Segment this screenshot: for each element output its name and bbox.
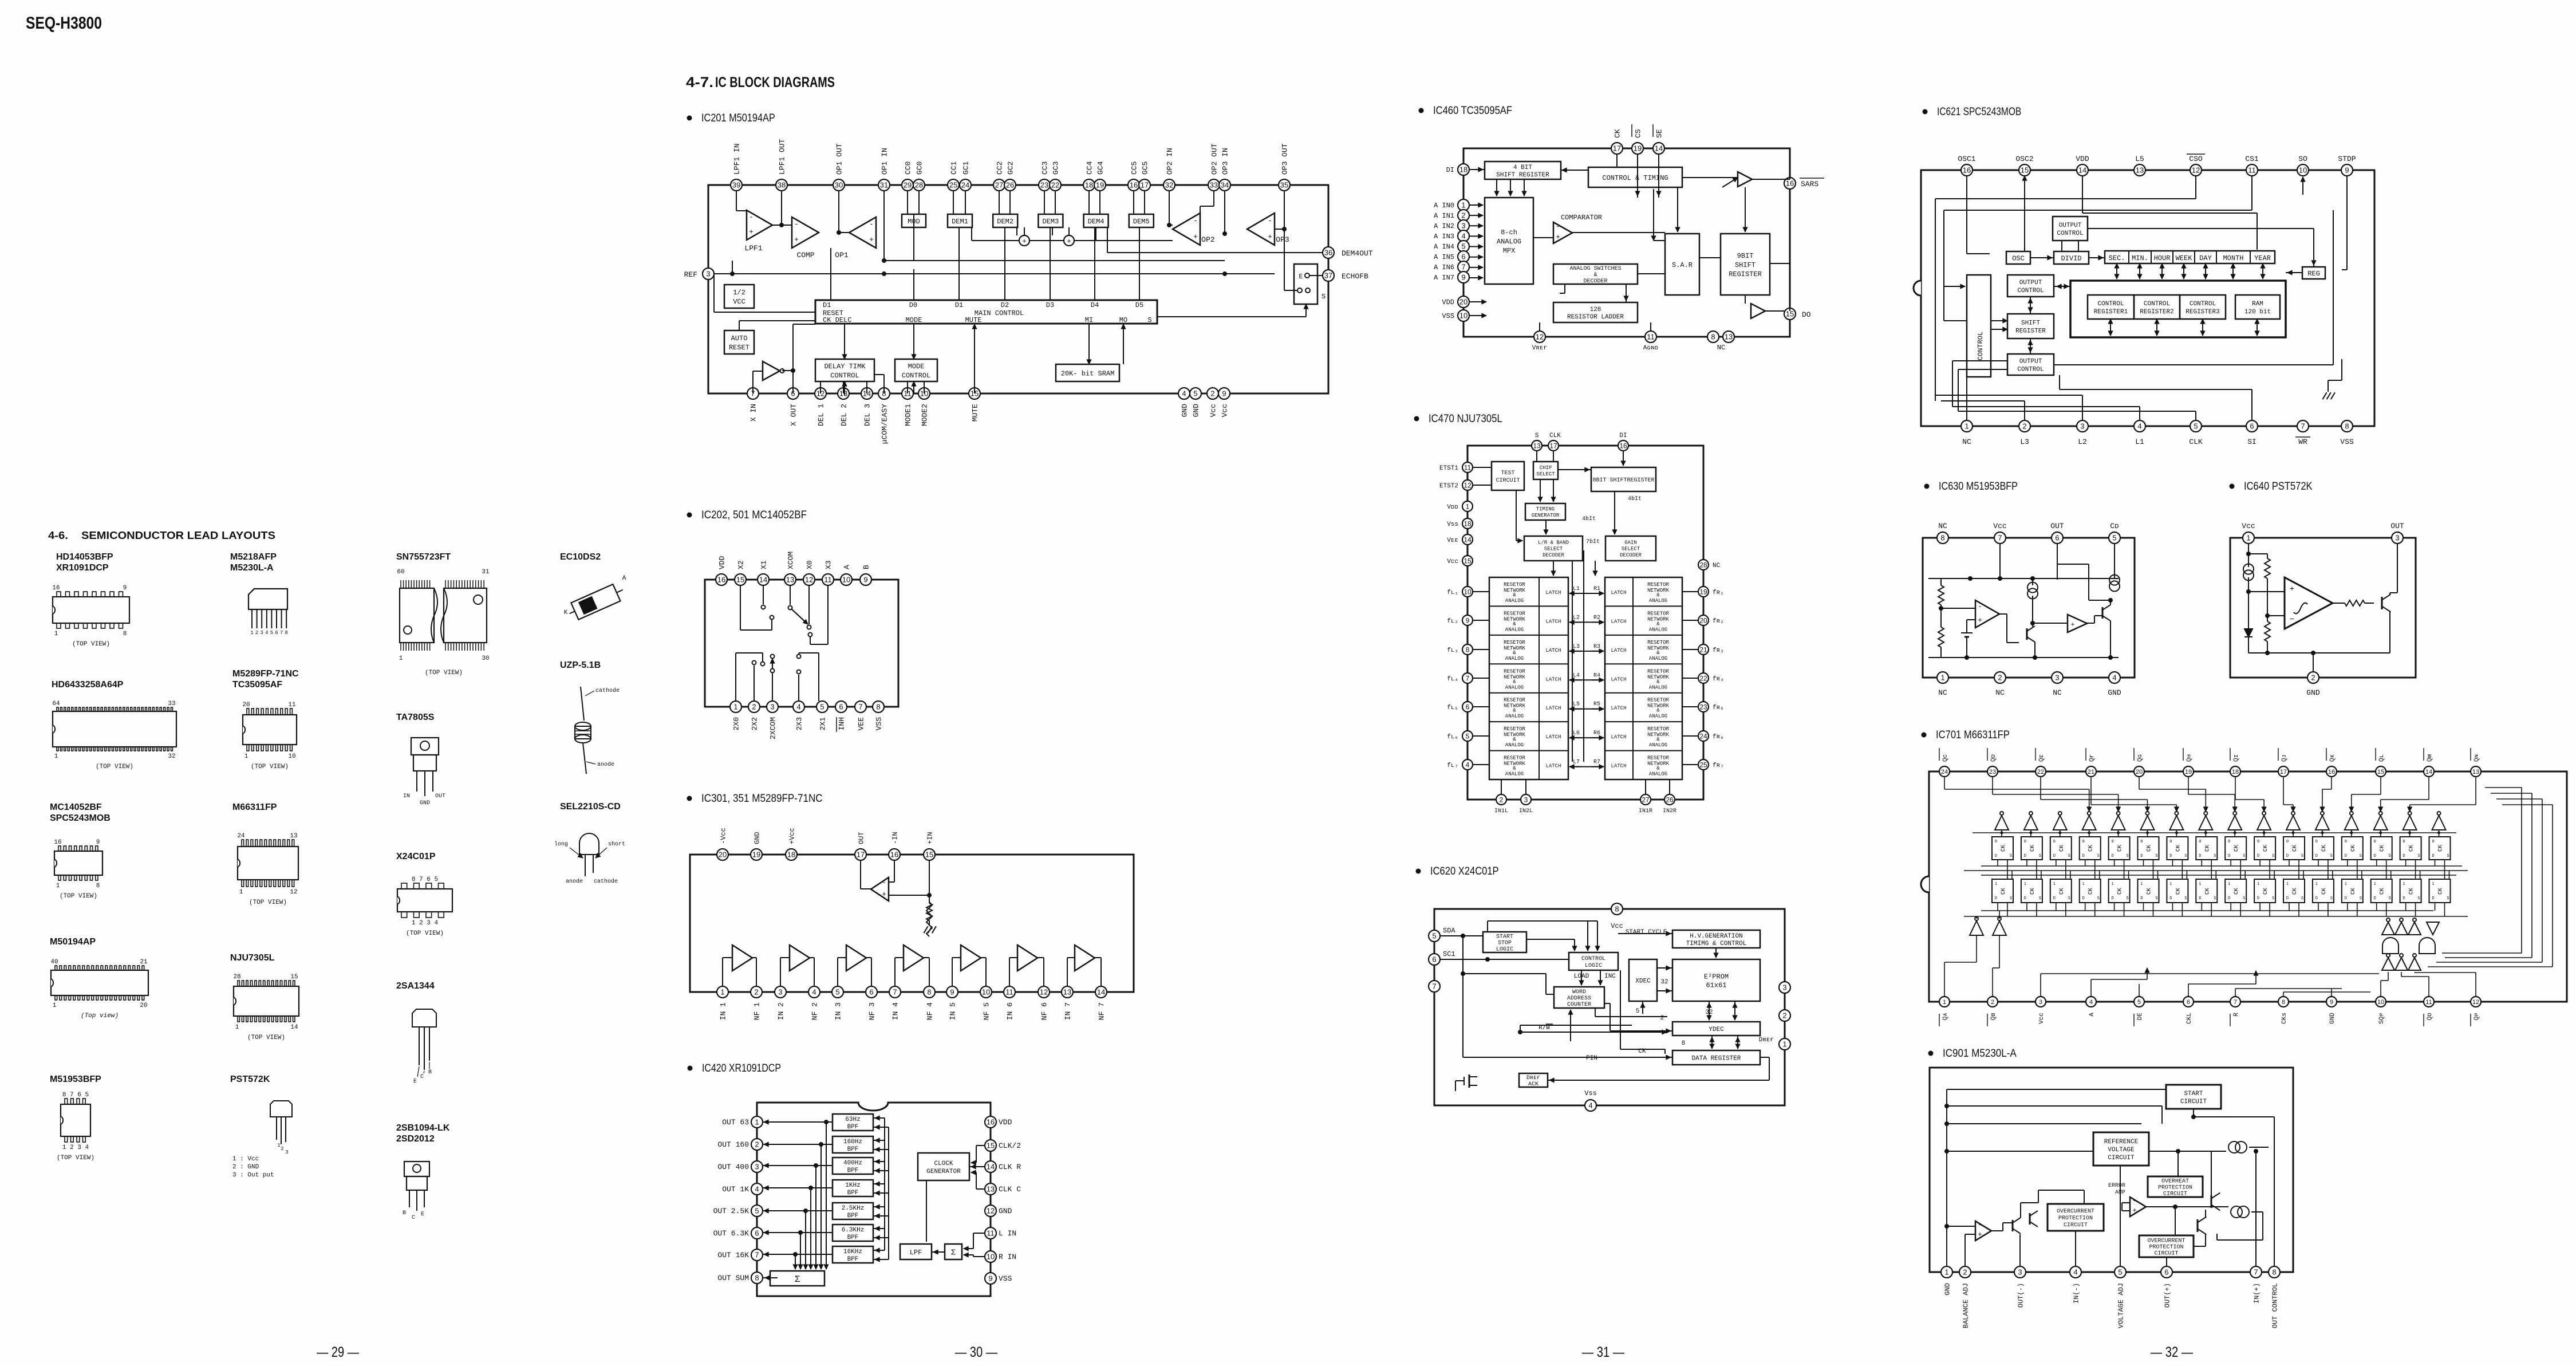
- svg-text:CONTROL: CONTROL: [902, 372, 930, 380]
- svg-text:17: 17: [1613, 144, 1621, 153]
- svg-text:NF 6: NF 6: [1040, 1002, 1049, 1020]
- svg-text:36: 36: [1324, 249, 1332, 257]
- svg-text:13: 13: [987, 1185, 995, 1194]
- svg-text:IN 5: IN 5: [949, 1002, 957, 1020]
- svg-text:CIRCUIT: CIRCUIT: [2108, 1155, 2135, 1162]
- IC701 pin 15 Qʟ: [2376, 766, 2386, 777]
- svg-text:39: 39: [732, 181, 740, 190]
- svg-text:DI: DI: [1619, 432, 1627, 439]
- IC640 resistor 1: [2265, 558, 2270, 578]
- svg-text:6: 6: [275, 630, 278, 636]
- svg-text:CC4: CC4: [1086, 161, 1094, 175]
- IC460 pin 4 A IN3: [1458, 230, 1469, 242]
- svg-text:OUT 2.5K: OUT 2.5K: [713, 1207, 749, 1215]
- svg-text:CK: CK: [2088, 845, 2094, 852]
- svg-text:A IN6: A IN6: [1434, 263, 1454, 271]
- svg-text:4-6.: 4-6.: [48, 530, 68, 541]
- IC201 pin 25 CC1: [948, 179, 959, 191]
- IC901 pin 8 OUT CONTROL: [2269, 1266, 2280, 1278]
- svg-text:1 2 3 4: 1 2 3 4: [62, 1144, 89, 1151]
- svg-text:cathode: cathode: [594, 878, 618, 885]
- IC460 box 4BIT SHIFT REGISTER: [1485, 162, 1561, 179]
- svg-text:D: D: [2286, 854, 2289, 859]
- IC460 pin 2 A IN1: [1458, 210, 1469, 221]
- svg-text:16: 16: [52, 585, 60, 592]
- svg-text:CK: CK: [2321, 845, 2328, 852]
- IC901 current source 1: [2228, 1141, 2240, 1153]
- svg-text:3: 3: [2395, 534, 2399, 542]
- IC621 box RAM 120bit: [2235, 295, 2280, 319]
- svg-text:CK: CK: [2438, 888, 2444, 895]
- svg-text:RESETOR: RESETOR: [1647, 582, 1669, 588]
- IC620 box YDEC: [1672, 1022, 1760, 1036]
- svg-text:CONTROL: CONTROL: [2017, 288, 2044, 294]
- IC701 FF row1 5: [2109, 837, 2130, 860]
- IC470 box GAIN SELECT DECODER: [1605, 536, 1656, 561]
- IC202 pin 16 VDD: [716, 574, 727, 585]
- svg-text:OUTPUT: OUTPUT: [2059, 222, 2082, 229]
- IC201 pin 24 GC1: [960, 179, 971, 191]
- IC420 pin 2 OUT 160: [751, 1139, 763, 1150]
- svg-text:9: 9: [96, 839, 100, 846]
- svg-text:16: 16: [717, 576, 725, 584]
- svg-text:9: 9: [1461, 273, 1465, 282]
- IC630 pin 4 GND: [2109, 672, 2120, 683]
- svg-text:32: 32: [168, 753, 175, 760]
- svg-text:COMPARATOR: COMPARATOR: [1561, 214, 1602, 222]
- svg-text:(TOP VIEW): (TOP VIEW): [60, 893, 97, 900]
- IC201 pin 17 GC5: [1139, 179, 1150, 191]
- svg-text:Vcc: Vcc: [1209, 404, 1218, 417]
- svg-text:CK: CK: [2234, 888, 2240, 895]
- svg-text:16KHz: 16KHz: [843, 1249, 862, 1255]
- svg-text:9: 9: [2330, 999, 2333, 1006]
- package M66311FP SOP24: [238, 847, 298, 880]
- svg-text:20: 20: [242, 702, 250, 708]
- IC701 buses below row2: [1981, 910, 2433, 911]
- IC701 FF row1 1: [1992, 837, 2013, 860]
- svg-text:Vѕѕ: Vѕѕ: [1447, 521, 1458, 528]
- label IC460 TC35095AF: [1419, 108, 1424, 113]
- svg-text:2: 2: [1660, 1015, 1664, 1022]
- svg-text:0: 0: [2082, 840, 2085, 844]
- svg-text:OUTPUT: OUTPUT: [2019, 358, 2042, 365]
- svg-text:16: 16: [987, 1118, 995, 1127]
- svg-text:ANALOG: ANALOG: [1497, 238, 1521, 246]
- svg-text:Aɢɴᴅ: Aɢɴᴅ: [1643, 345, 1658, 352]
- IC640 pin 2 GND: [2307, 672, 2319, 683]
- IC460 pin 18 DI: [1458, 164, 1469, 175]
- IC460 box 9BIT SHIFT REGISTER: [1721, 234, 1770, 295]
- IC420 right side wires: [976, 1145, 985, 1146]
- svg-text:1: 1: [399, 655, 403, 662]
- IC301 pin 9 IN 5: [946, 986, 958, 998]
- svg-text:C: C: [412, 1215, 415, 1221]
- IC701 pin 6 CKL: [2183, 997, 2194, 1007]
- svg-text:4: 4: [2089, 999, 2093, 1006]
- svg-text:CK: CK: [2030, 888, 2036, 895]
- svg-text:X24C01P: X24C01P: [396, 852, 436, 861]
- svg-text:CK: CK: [2059, 845, 2065, 852]
- svg-text:S: S: [2243, 854, 2245, 859]
- IC620 pin 1 Dref: [1779, 1038, 1790, 1050]
- svg-text:fʟ₆: fʟ₆: [1447, 734, 1458, 741]
- svg-text:1: 1: [1461, 201, 1465, 210]
- svg-text:11: 11: [288, 702, 296, 708]
- svg-text:S: S: [2243, 896, 2245, 901]
- svg-text:D: D: [2053, 896, 2056, 901]
- svg-text:23: 23: [1699, 703, 1707, 711]
- svg-text:2: 2: [1500, 796, 1504, 804]
- svg-text:IN 4: IN 4: [891, 1002, 900, 1020]
- svg-text:CK DELC: CK DELC: [823, 316, 851, 324]
- svg-text:14: 14: [1097, 988, 1105, 997]
- IC420 pin 1 OUT 63: [751, 1116, 763, 1128]
- svg-text:RESETOR: RESETOR: [1504, 640, 1525, 645]
- svg-text:ADDRESS: ADDRESS: [1567, 995, 1591, 1002]
- svg-text:A IN1: A IN1: [1434, 212, 1454, 220]
- IC301 pin 19 GND: [751, 849, 762, 860]
- svg-text:Qᴅ: Qᴅ: [1990, 754, 1997, 762]
- IC630 pin 1 NC: [1937, 672, 1948, 683]
- svg-text:OUT 160: OUT 160: [717, 1140, 749, 1149]
- svg-text:A IN2: A IN2: [1434, 222, 1454, 230]
- svg-text:Qᴄ: Qᴄ: [1942, 754, 1949, 762]
- svg-text:+: +: [794, 235, 799, 244]
- svg-text:31: 31: [482, 569, 490, 576]
- svg-text:12: 12: [1536, 333, 1544, 341]
- IC621 ground: [2322, 392, 2326, 399]
- svg-text:5: 5: [1636, 1008, 1640, 1015]
- svg-text:160Hz: 160Hz: [843, 1139, 862, 1145]
- svg-text:33: 33: [1210, 181, 1218, 190]
- svg-text:10: 10: [1459, 312, 1468, 320]
- svg-text:+: +: [2290, 585, 2294, 594]
- svg-text:R IN: R IN: [999, 1253, 1016, 1261]
- svg-text:OUT CONTROL: OUT CONTROL: [2271, 1283, 2279, 1328]
- svg-text:ANALOG: ANALOG: [1649, 714, 1667, 719]
- svg-text:Qɢ: Qɢ: [2137, 754, 2144, 762]
- svg-text:D: D: [2315, 896, 2318, 901]
- label IC640 PST572K: [2230, 484, 2235, 489]
- svg-text:NC: NC: [1995, 688, 2005, 697]
- svg-text:18: 18: [1085, 181, 1093, 190]
- svg-text:128: 128: [1590, 306, 1601, 313]
- IC640 current source: [2243, 564, 2254, 574]
- svg-text:Vcc: Vcc: [1611, 922, 1623, 930]
- svg-text:5: 5: [1466, 732, 1470, 740]
- svg-text:30: 30: [482, 655, 489, 662]
- svg-text:SEL2210S-CD: SEL2210S-CD: [560, 802, 621, 812]
- svg-text:&: &: [1513, 766, 1516, 771]
- IC420 box 63Hz BPF: [833, 1114, 873, 1131]
- svg-text:OUT: OUT: [435, 793, 445, 800]
- IC701 FF row2 10: [2254, 879, 2275, 903]
- IC201 box DEM3: [1038, 214, 1063, 227]
- svg-text:GC4: GC4: [1096, 161, 1105, 175]
- svg-text:CS: CS: [1634, 129, 1643, 138]
- svg-text:2: 2: [255, 630, 258, 636]
- IC470 pin 13 S: [1532, 440, 1542, 451]
- svg-text:1: 1: [2246, 534, 2250, 542]
- IC420 pin 4 OUT 1K: [751, 1183, 763, 1195]
- svg-text:CK: CK: [2001, 888, 2007, 895]
- svg-text:7: 7: [1998, 534, 2002, 542]
- svg-text:+IN: +IN: [926, 832, 934, 844]
- svg-text:CONTROL: CONTROL: [2057, 230, 2083, 237]
- svg-text:S: S: [2447, 896, 2449, 901]
- svg-text:7: 7: [280, 630, 283, 636]
- svg-text:ANALOG: ANALOG: [1505, 684, 1524, 690]
- IC901 pin 3 OUT(-): [2014, 1266, 2026, 1278]
- svg-text:+: +: [1067, 237, 1071, 246]
- svg-text:D: D: [2140, 896, 2143, 901]
- IC470 box 8BIT SHIFTREGISTER: [1591, 467, 1656, 491]
- IC621 box SHIFT REGISTER: [2007, 314, 2054, 338]
- IC470 box LR BAND SELECT DECODER: [1524, 536, 1583, 561]
- svg-text:4: 4: [812, 988, 816, 997]
- IC460 box ANALOG SWITCHES DECODER: [1553, 264, 1638, 284]
- IC301 pin 1 IN 1: [717, 986, 728, 998]
- IC701 M66311FP block diagram: [1921, 748, 2567, 1026]
- svg-text:fʀ₃: fʀ₃: [1713, 647, 1724, 654]
- IC630 pin 6 OUT: [2052, 532, 2063, 544]
- svg-text:60: 60: [397, 569, 404, 576]
- svg-text:2: 2: [1998, 674, 2002, 682]
- svg-text:0: 0: [2228, 840, 2230, 844]
- IC640 pin 1 Vcc: [2243, 532, 2254, 544]
- svg-text:6: 6: [2250, 422, 2254, 431]
- IC640 transistor: [2381, 597, 2383, 609]
- svg-text:1: 1: [277, 1143, 280, 1148]
- package TA7805S TO-220: [411, 738, 439, 755]
- IC701 inverter 1: [1995, 816, 2009, 830]
- svg-text:X1: X1: [760, 560, 768, 569]
- IC701 FF row2 6: [2138, 879, 2159, 903]
- svg-text:25: 25: [949, 181, 957, 190]
- svg-text:6: 6: [839, 703, 843, 711]
- IC901 right transistors: [2211, 1195, 2212, 1208]
- svg-text:ANALOG: ANALOG: [1505, 627, 1524, 632]
- svg-text:CSO: CSO: [2189, 155, 2203, 163]
- svg-text:13: 13: [786, 576, 794, 584]
- svg-text:SHIFT REGISTER: SHIFT REGISTER: [1496, 172, 1549, 179]
- IC901 current source 2: [2231, 1206, 2242, 1218]
- svg-text:15: 15: [987, 1141, 995, 1150]
- IC460 pin 5 A IN4: [1458, 241, 1469, 252]
- IC201 box MOD: [902, 214, 926, 227]
- IC202 MC14052BF block diagram: [705, 552, 898, 739]
- IC201 box 20K-bit SRAM: [1056, 364, 1119, 381]
- IC460 pin 11 AGND: [1645, 331, 1656, 343]
- svg-text:S: S: [2155, 896, 2157, 901]
- svg-text:Vᴇᴇ: Vᴇᴇ: [1447, 537, 1458, 544]
- svg-text:13: 13: [1063, 988, 1071, 997]
- svg-text:DO: DO: [1802, 310, 1811, 319]
- svg-text:B: B: [403, 1210, 406, 1217]
- svg-text:29: 29: [904, 181, 912, 190]
- svg-text:3: 3: [1461, 222, 1465, 230]
- IC621 pin 1 NC: [1961, 420, 1973, 432]
- svg-text:15: 15: [1463, 557, 1472, 565]
- svg-text:1: 1: [2315, 882, 2318, 887]
- svg-text:2X1: 2X1: [819, 717, 827, 731]
- svg-text:-: -: [1268, 216, 1272, 225]
- svg-text:YEAR: YEAR: [2254, 254, 2271, 262]
- svg-text:ACK: ACK: [1528, 1081, 1539, 1088]
- svg-text:Vᴄᴄ: Vᴄᴄ: [1447, 558, 1458, 565]
- svg-text:GND: GND: [2108, 688, 2121, 697]
- svg-text:10: 10: [987, 1253, 995, 1261]
- svg-text:20K- bit SRAM: 20K- bit SRAM: [1061, 369, 1115, 377]
- svg-text:18: 18: [1463, 519, 1472, 527]
- svg-text:0: 0: [2432, 840, 2434, 844]
- IC701 AND gates: [2382, 938, 2399, 954]
- svg-text:IC701 M66311FP: IC701 M66311FP: [1936, 729, 2010, 741]
- svg-text:A IN7: A IN7: [1434, 274, 1454, 282]
- svg-text:19: 19: [2185, 769, 2192, 775]
- IC621 pin 8 VSS: [2341, 420, 2353, 432]
- svg-text:13: 13: [2136, 166, 2144, 175]
- svg-text:LATCH: LATCH: [1611, 676, 1626, 682]
- svg-text:0: 0: [2199, 840, 2201, 844]
- IC701 pin 18 Qɪ: [2230, 766, 2240, 777]
- svg-text:Dʀᴇғ: Dʀᴇғ: [1759, 1037, 1774, 1044]
- IC701 FF row1 3: [2050, 837, 2072, 860]
- svg-text:Cᴅ: Cᴅ: [2110, 522, 2119, 530]
- svg-text:1: 1: [1940, 674, 1944, 682]
- svg-text:— 31 —: — 31 —: [1582, 1344, 1624, 1360]
- IC420 box LPF: [900, 1244, 932, 1259]
- svg-text:short: short: [608, 841, 625, 848]
- lead layouts section: [50, 552, 626, 1221]
- IC620 pin 4 Vss: [1585, 1100, 1596, 1111]
- svg-text:S: S: [2389, 896, 2391, 901]
- svg-text:14: 14: [290, 1024, 298, 1031]
- svg-text:REGISTER: REGISTER: [2015, 328, 2046, 334]
- IC640 resistor 2: [2265, 621, 2270, 641]
- label IC701 M66311FP: [1922, 733, 1927, 738]
- svg-text:GENERATOR: GENERATOR: [926, 1168, 961, 1175]
- svg-text:8: 8: [927, 988, 931, 997]
- svg-text:8: 8: [1682, 1040, 1686, 1047]
- IC620 pin 7: [1429, 981, 1440, 992]
- IC901 pin 2 BALANCE ADJ: [1959, 1266, 1971, 1278]
- IC201 pin 26 GC2: [1004, 179, 1016, 191]
- svg-text:CONTROL: CONTROL: [2190, 301, 2216, 308]
- svg-text:IC BLOCK DIAGRAMS: IC BLOCK DIAGRAMS: [715, 74, 835, 90]
- svg-text:18: 18: [1459, 166, 1468, 174]
- svg-text:2: 2: [752, 703, 756, 711]
- svg-text:REFERENCE: REFERENCE: [2104, 1139, 2139, 1145]
- IC630 resistor lower: [1938, 627, 1944, 647]
- svg-text:10: 10: [842, 576, 850, 584]
- svg-text:DATA REGISTER: DATA REGISTER: [1692, 1055, 1741, 1062]
- svg-text:1: 1: [2374, 882, 2376, 887]
- svg-text:Vcc: Vcc: [2038, 1013, 2045, 1024]
- IC470 pin 12 ETST2: [1462, 480, 1473, 490]
- IC701 pin 13 Qɴ: [2471, 766, 2481, 777]
- svg-text:4: 4: [796, 703, 800, 711]
- svg-text:S: S: [2447, 854, 2449, 859]
- svg-text:8 7 6 5: 8 7 6 5: [412, 876, 438, 883]
- svg-text:-: -: [794, 220, 799, 229]
- svg-text:E: E: [421, 1211, 424, 1218]
- IC470 box CHIP SELECT: [1533, 462, 1558, 479]
- svg-text:SEC.: SEC.: [2109, 254, 2125, 262]
- IC701 FF row2 12: [2313, 879, 2334, 903]
- svg-text:8: 8: [876, 703, 880, 711]
- svg-text:3: 3: [2039, 999, 2042, 1006]
- IC620 box START STOP LOGIC: [1483, 932, 1526, 952]
- svg-text:2.5KHz: 2.5KHz: [842, 1205, 865, 1212]
- svg-text:1: 1: [54, 631, 58, 637]
- svg-text:CLK/2: CLK/2: [999, 1141, 1021, 1150]
- svg-text:7bIt: 7bIt: [1586, 538, 1600, 545]
- svg-text:LATCH: LATCH: [1611, 734, 1626, 740]
- svg-text:PROTECTION: PROTECTION: [2158, 1185, 2192, 1191]
- svg-text:NJU7305L: NJU7305L: [230, 953, 275, 963]
- svg-text:(TOP VIEW): (TOP VIEW): [249, 899, 287, 906]
- IC202 pin 1 2X0: [730, 701, 741, 712]
- IC701 pin 21 Qғ: [2086, 766, 2096, 777]
- svg-text:8BIT SHIFTREGISTER: 8BIT SHIFTREGISTER: [1592, 478, 1654, 484]
- IC620 box DATA REGISTER: [1672, 1050, 1760, 1065]
- svg-text:13: 13: [1533, 442, 1541, 450]
- IC470 pin 24 fʀ₆: [1698, 731, 1709, 741]
- IC420 box 160Hz BPF: [833, 1136, 873, 1153]
- IC630 comparator: [1975, 600, 1999, 628]
- svg-text:11: 11: [824, 576, 832, 584]
- svg-text:8: 8: [1940, 534, 1944, 542]
- IC621 pin 10 SO: [2297, 164, 2309, 176]
- svg-text:CKs: CKs: [2281, 1013, 2288, 1024]
- IC701 FF row2 1: [1992, 879, 2013, 903]
- package SEL2210S LED: [579, 833, 599, 855]
- svg-text:Qᴋ: Qᴋ: [2329, 754, 2336, 762]
- svg-text:REG: REG: [2307, 270, 2320, 278]
- svg-text:fʀ₅: fʀ₅: [1713, 704, 1724, 711]
- svg-text:WORD: WORD: [1572, 989, 1586, 995]
- svg-text:CC3: CC3: [1041, 162, 1050, 175]
- svg-text:BPF: BPF: [847, 1146, 859, 1153]
- svg-text:2: 2: [281, 1146, 283, 1152]
- svg-text:MONTH: MONTH: [2223, 254, 2243, 262]
- svg-text:21: 21: [1699, 645, 1707, 654]
- IC630 pin 5 Cᴅ: [2109, 532, 2120, 544]
- svg-text:S: S: [2330, 896, 2333, 901]
- svg-text:IN2L: IN2L: [1519, 808, 1533, 814]
- svg-text:RAM: RAM: [2252, 301, 2263, 308]
- IC470 pin 22 fʀ₄: [1698, 673, 1709, 683]
- svg-text:26: 26: [1006, 181, 1014, 190]
- svg-text:7: 7: [2234, 999, 2237, 1006]
- IC701 pin 11 Qᴅ: [2424, 997, 2434, 1007]
- svg-text:11: 11: [1005, 988, 1013, 997]
- package X24C01P DIP8: [397, 889, 452, 912]
- svg-text:-: -: [882, 878, 886, 887]
- svg-text:OUT 400: OUT 400: [717, 1163, 749, 1171]
- IC202 pin 4 2X3: [793, 701, 804, 712]
- svg-text:AUTO: AUTO: [731, 334, 748, 343]
- svg-text:UZP-5.1B: UZP-5.1B: [560, 660, 601, 670]
- svg-text:(TOP VIEW): (TOP VIEW): [406, 930, 444, 937]
- IC201 pin 12 DEL 1: [815, 388, 826, 399]
- svg-text:+Vcc: +Vcc: [788, 828, 796, 844]
- svg-text:28: 28: [915, 181, 923, 190]
- svg-text:2X3: 2X3: [795, 717, 804, 730]
- svg-text:CK: CK: [2204, 888, 2211, 895]
